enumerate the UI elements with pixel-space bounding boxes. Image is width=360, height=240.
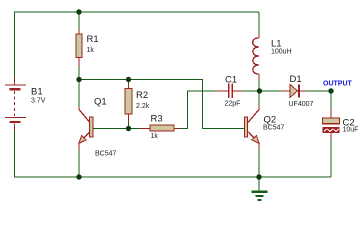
svg-text:B1: B1 bbox=[31, 87, 43, 98]
resistor R3 bbox=[140, 125, 180, 131]
svg-text:R2: R2 bbox=[136, 90, 148, 101]
svg-text:10uF: 10uF bbox=[343, 127, 359, 134]
transistor Q1 BC547 NPN bbox=[79, 107, 93, 151]
svg-text:3.7V: 3.7V bbox=[31, 97, 46, 104]
label D1 value UF4007 bbox=[289, 101, 314, 108]
wire node A down to Q1 collector bbox=[78, 80, 80, 107]
resistor R1 bbox=[76, 12, 82, 80]
svg-text:100uH: 100uH bbox=[271, 49, 292, 56]
label R1 reference bbox=[87, 34, 99, 45]
svg-text:22pF: 22pF bbox=[225, 101, 241, 108]
resistor R2 bbox=[125, 80, 132, 129]
wire L1 to node bbox=[258, 80, 260, 91]
node junction L1 C1 D1 Q2 collector bbox=[257, 88, 262, 93]
svg-text:R3: R3 bbox=[151, 113, 163, 124]
ground bbox=[251, 177, 267, 201]
node junction R2 top bbox=[126, 77, 131, 82]
svg-text:D1: D1 bbox=[290, 74, 302, 85]
svg-text:1k: 1k bbox=[151, 133, 159, 140]
node junction top rail R1 bbox=[76, 9, 81, 14]
wire node A horizontal run to Q2 base bbox=[79, 80, 244, 129]
label D1 reference bbox=[290, 74, 302, 85]
svg-text:2.2k: 2.2k bbox=[136, 103, 150, 110]
node OUTPUT label bbox=[323, 80, 353, 87]
svg-text:Q1: Q1 bbox=[94, 96, 107, 107]
label Q2 value BC547 bbox=[263, 125, 285, 132]
label R2 value 2.2k bbox=[136, 103, 150, 110]
label C2 reference bbox=[343, 117, 355, 128]
wire top rail from battery to L1 bbox=[15, 11, 260, 13]
wire output node down to C2 bbox=[330, 91, 332, 109]
label C1 value 22pF bbox=[225, 101, 241, 108]
svg-text:UF4007: UF4007 bbox=[289, 101, 314, 108]
node junction Q1 base R2 R3 bbox=[126, 126, 131, 131]
wire C1 to node bbox=[242, 90, 260, 92]
wire C2 to bottom rail bbox=[330, 139, 332, 178]
label Q2 reference bbox=[264, 115, 277, 126]
label Q1 value BC547 bbox=[95, 150, 117, 157]
svg-text:OUTPUT: OUTPUT bbox=[323, 80, 353, 87]
label R3 reference bbox=[151, 113, 163, 124]
label Q1 reference bbox=[94, 96, 107, 107]
battery B1 bbox=[5, 77, 26, 130]
label C2 value 10uF bbox=[343, 127, 359, 134]
label L1 value 100uH bbox=[271, 49, 292, 56]
label B1 value 3.7V bbox=[31, 97, 46, 104]
svg-text:C1: C1 bbox=[225, 74, 237, 85]
label R2 reference bbox=[136, 90, 148, 101]
wire left rail upper bbox=[14, 11, 16, 77]
label C1 reference bbox=[225, 74, 237, 85]
node junction A R1 bottom bbox=[76, 77, 81, 82]
wire Q2 emitter to ground rail bbox=[258, 151, 260, 178]
node junction Q2 emitter ground rail bbox=[256, 174, 261, 179]
capacitor C2 polarized bbox=[323, 109, 340, 139]
label R3 value 1k bbox=[151, 133, 159, 140]
node junction Q1 emitter ground rail bbox=[76, 174, 81, 179]
label B1 reference bbox=[31, 87, 43, 98]
svg-text:BC547: BC547 bbox=[263, 125, 285, 132]
label R1 value 1k bbox=[87, 47, 95, 54]
wire D1 cathode to output node bbox=[306, 90, 332, 92]
diode D1 UF4007 bbox=[282, 84, 306, 97]
wire node to D1 anode bbox=[260, 90, 282, 92]
svg-text:R1: R1 bbox=[87, 34, 99, 45]
label L1 reference bbox=[271, 38, 282, 49]
transistor Q2 BC547 NPN bbox=[244, 91, 259, 151]
wire bottom ground rail bbox=[79, 176, 331, 178]
svg-text:BC547: BC547 bbox=[95, 150, 117, 157]
svg-text:1k: 1k bbox=[87, 47, 95, 54]
wire Q1 emitter to ground rail bbox=[78, 151, 80, 178]
inductor L1 bbox=[253, 12, 259, 80]
wire Q1 base line bbox=[93, 128, 140, 130]
node junction OUTPUT C2 bbox=[328, 88, 333, 93]
wire left rail lower bbox=[15, 130, 80, 177]
wire R3 up and over to C1 bbox=[180, 91, 218, 129]
capacitor C1 bbox=[217, 83, 242, 98]
